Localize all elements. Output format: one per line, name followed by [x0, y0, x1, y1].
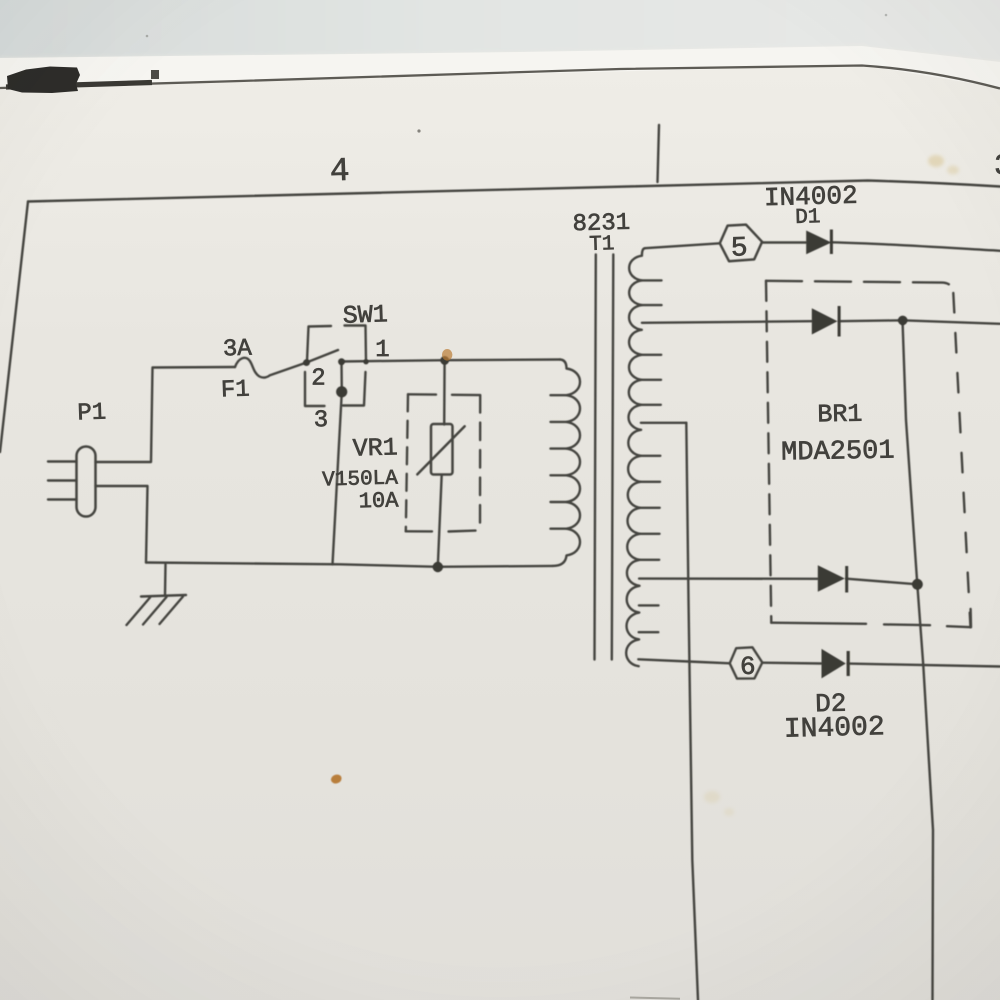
yellow stain top right 2 [947, 166, 959, 175]
bridge BR1 dashed box bottom edge [771, 609, 971, 627]
tiny speck [885, 14, 888, 17]
secondary winding tick 11 [639, 604, 659, 606]
switch SW1 box bracket bottom-left [305, 372, 325, 406]
switch SW1 box bracket bottom-right [343, 372, 366, 406]
primary winding tick 1 [551, 394, 567, 396]
secondary winding tick 8 [640, 507, 660, 509]
junction dot VR1 bottom [433, 562, 443, 572]
bridge diode row2 cathode bar [838, 306, 841, 337]
junction dot SW1 pin1 [363, 359, 368, 364]
P1 prong bottom [48, 498, 77, 500]
tiny speck [417, 129, 420, 132]
node 5 hexagon [720, 225, 762, 262]
gray photo backdrop above page [0, 0, 1000, 64]
thick dark left portion of edge [6, 83, 152, 88]
secondary winding tick 1 [642, 279, 662, 281]
wire node 6 to diode D2 [762, 662, 821, 665]
fuse F1 [235, 358, 307, 378]
border frame top line [28, 181, 1000, 202]
secondary winding tick 7 [640, 481, 660, 483]
transformer T1 core line right [612, 255, 614, 660]
page top edge dark line [0, 66, 1000, 89]
grid section tick between 4 and 3 [658, 125, 660, 182]
P1 prong top [48, 460, 77, 462]
wire top rail from switch to transformer [342, 360, 561, 362]
bridge diode row3 triangle [818, 565, 845, 592]
P1 prong middle [48, 479, 77, 481]
switch SW1 blade [307, 350, 339, 363]
transformer T1 secondary winding [626, 248, 645, 666]
primary winding tick 5 [551, 501, 567, 503]
wire VR1 top lead [443, 360, 446, 424]
secondary winding tick 10 [640, 559, 660, 561]
ground slash 1 [127, 598, 151, 626]
ground bar [141, 595, 186, 597]
bridge BR1 dashed box left edge [766, 281, 771, 623]
secondary winding tick 6 [641, 455, 661, 457]
bridge diode row3 cathode bar [845, 566, 848, 593]
switch SW1 box bracket top-right [345, 326, 367, 362]
junction dot SW1 node [338, 358, 345, 365]
bridge BR1 dashed box top edge [766, 281, 953, 293]
faint page bottom edge hint [630, 998, 680, 999]
bridge diode row2 triangle [812, 308, 838, 334]
ground stub wire [164, 565, 167, 596]
VR1 dashed box right edge [479, 395, 482, 531]
diode D1 cathode bar [830, 230, 833, 255]
secondary winding tick 3 [642, 354, 662, 356]
tiny speck [146, 35, 149, 38]
junction dot SW1 pin2 [303, 359, 310, 366]
wire secondary bottom to node 6 [638, 659, 729, 663]
wire secondary center tap [641, 422, 686, 424]
wire plug hot up to fuse [96, 367, 236, 462]
varistor VR1 body [431, 424, 453, 475]
bridge BR1 dashed box right edge [953, 293, 970, 627]
plug P1 body [77, 447, 96, 517]
secondary winding tick 5 [641, 404, 661, 406]
junction dot bridge row2 [898, 316, 908, 326]
orange stain dot lower left [330, 773, 343, 785]
secondary winding tick 2 [642, 304, 662, 306]
faint yellow stain lower middle [704, 791, 720, 803]
wire D1 cathode off page right [832, 242, 1000, 251]
wire positive rail down right side [903, 320, 934, 1000]
ground slash 2 [143, 597, 167, 625]
secondary winding tick 4 [641, 379, 661, 381]
ground slash 3 [160, 597, 184, 625]
orange stain over VR1 top junction [442, 349, 452, 361]
transformer T1 primary winding [553, 360, 580, 566]
yellow stain top right [928, 155, 944, 167]
wire switch pole down to bottom rail [333, 362, 342, 565]
faint yellow stain lower middle 2 [724, 808, 734, 816]
VR1 dashed box left edge [406, 394, 408, 531]
VR1 dashed box bottom edge [406, 529, 476, 532]
wire secondary top tap to node 5 [645, 243, 720, 248]
border frame left line [0, 202, 28, 453]
wire secondary tap row2 to bridge [642, 321, 812, 323]
wire VR1 bottom lead [438, 475, 442, 567]
primary winding tick 3 [551, 447, 567, 449]
varistor VR1 diagonal stroke [417, 426, 464, 474]
primary winding tick 4 [551, 474, 567, 476]
node 6 hexagon [730, 647, 763, 678]
primary winding tick 2 [551, 421, 567, 423]
wire secondary tap row3 to bridge diode [639, 577, 818, 580]
wire D2 cathode off page right [848, 664, 1000, 667]
wire bridge diode row3 to junction [847, 579, 918, 585]
wire bridge diode row2 to junction and off right [839, 320, 1000, 324]
secondary winding tick 9 [640, 533, 660, 535]
diode D2 triangle [822, 649, 846, 679]
junction dot VR1 top [440, 356, 449, 365]
white page-edge strip [0, 46, 1000, 88]
transformer T1 core line left [595, 255, 596, 660]
diode D1 triangle [806, 231, 831, 255]
wire plug neutral down to bottom rail [96, 486, 148, 563]
VR1 dashed box top edge [408, 393, 480, 396]
switch SW1 box bracket top-left [307, 326, 331, 361]
bottom rail wire [146, 563, 553, 567]
wire center tap down to page bottom [686, 423, 698, 1000]
junction dot SW1 pin3 big [336, 386, 347, 397]
primary winding tick 6 [551, 528, 567, 530]
diode D2 cathode bar [847, 651, 850, 676]
small notch above edge line [151, 70, 159, 79]
junction dot bridge row3 [912, 579, 923, 590]
wire node 5 to diode D1 [762, 241, 806, 243]
dark blob on left edge [7, 67, 80, 94]
secondary winding tick 12 [639, 631, 659, 633]
